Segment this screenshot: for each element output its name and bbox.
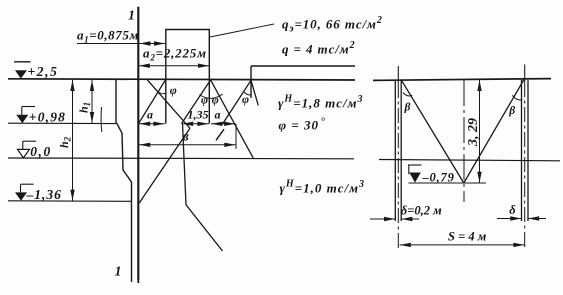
dimension a2: [139, 46, 210, 68]
surcharge block q3 rectangle: [166, 30, 210, 124]
svg-text:1: 1: [128, 9, 135, 24]
text gamma 1,8: [278, 94, 364, 111]
dimension h1: [77, 80, 95, 123]
left wall face outer: [394, 80, 396, 221]
dimension a1: [77, 28, 165, 46]
text gamma 1,0: [280, 179, 366, 196]
level line -0,79: [409, 182, 487, 184]
right wall axis dash-dot: [524, 65, 526, 250]
leader line to q3: [210, 24, 274, 37]
level line +0,98: [8, 122, 116, 124]
svg-text:δ: δ: [509, 203, 516, 217]
svg-text:1,35: 1,35: [188, 108, 209, 122]
text q value: [282, 40, 355, 57]
dimension 3,29: [466, 80, 482, 183]
level line 0,0 left part: [8, 157, 354, 160]
left wall face inner: [400, 80, 402, 221]
level mark 0,0 open triangle: [18, 141, 52, 159]
svg-text:+2,5: +2,5: [28, 64, 59, 79]
svg-text:q = 4 тс/м2: q = 4 тс/м2: [282, 40, 355, 57]
dimension v: [139, 130, 236, 148]
long slip line to pile toe: [139, 128, 190, 203]
phi arc X pattern: [158, 83, 177, 97]
witness line right of a: [235, 124, 237, 149]
phi arcs cone C: [200, 93, 223, 107]
label l stroke: [216, 129, 224, 140]
svg-text:φ = 30°: φ = 30°: [279, 116, 326, 133]
level line 0,0 right part: [379, 160, 560, 161]
small stroke left of pile: [100, 107, 103, 132]
left wall axis dash-dot: [397, 66, 399, 249]
dimension a right segment: [211, 108, 236, 127]
level mark -1,36: [15, 184, 62, 202]
dimension a left segment: [139, 108, 165, 127]
svg-text:φ: φ: [201, 93, 208, 107]
svg-text:S = 4 м: S = 4 м: [448, 230, 487, 244]
ground line +2,5: [8, 79, 355, 80]
text phi 30: [279, 116, 326, 133]
center line of cell: [463, 80, 465, 202]
dimension delta right wall: [497, 203, 546, 221]
level mark +2,5: [14, 62, 58, 79]
cone D right line: [251, 80, 258, 105]
beta arc left: [403, 93, 412, 114]
phi arc cone D: [242, 92, 251, 106]
svg-text:φ: φ: [212, 93, 219, 107]
V line right: [464, 80, 524, 184]
level mark -0,79: [408, 165, 455, 185]
cone C left line: [182, 80, 211, 124]
right wall face outer: [527, 80, 529, 221]
svg-text:a: a: [147, 108, 153, 122]
beta arc right: [508, 95, 522, 117]
svg-text:φ: φ: [170, 83, 177, 97]
right diagram top line: [373, 79, 551, 81]
text q3 value: [282, 15, 383, 35]
dimension S: [400, 230, 525, 248]
svg-text:в: в: [183, 130, 190, 145]
level mark +0,98: [16, 107, 66, 125]
svg-text:δ=0,2 м: δ=0,2 м: [401, 204, 442, 218]
svg-text:+0,98: +0,98: [29, 110, 66, 125]
section axis line 1-1: [137, 7, 139, 280]
svg-text:–1,36: –1,36: [26, 187, 62, 202]
dimension 1,35 segment: [182, 108, 209, 127]
svg-text:1: 1: [115, 265, 122, 280]
spread line X1 from ground: [147, 80, 190, 128]
label 1 top: [128, 9, 135, 24]
svg-text:φ: φ: [242, 92, 249, 106]
svg-text:β: β: [404, 102, 411, 114]
cone C right line: [211, 80, 254, 159]
right wall face inner: [521, 80, 523, 221]
spread line B down-left: [139, 80, 166, 123]
svg-text:0,0: 0,0: [30, 144, 52, 159]
dimension h2: [57, 80, 75, 201]
V line left: [402, 80, 464, 183]
label 1 bottom: [115, 265, 122, 280]
svg-text:a: a: [215, 108, 221, 122]
cone D left line: [223, 80, 251, 123]
svg-text:3, 29: 3, 29: [466, 118, 481, 147]
sheet pile wall right face lower part: [137, 280, 139, 283]
dimension delta left wall: [370, 204, 442, 222]
svg-text:β: β: [508, 105, 515, 117]
surcharge platform top line q: [251, 66, 355, 98]
level line -1,36: [8, 200, 131, 203]
spread boundary vertical and diagonal: [183, 124, 223, 251]
svg-text:–0,79: –0,79: [422, 171, 455, 185]
sheet pile wall left face: [116, 80, 132, 282]
